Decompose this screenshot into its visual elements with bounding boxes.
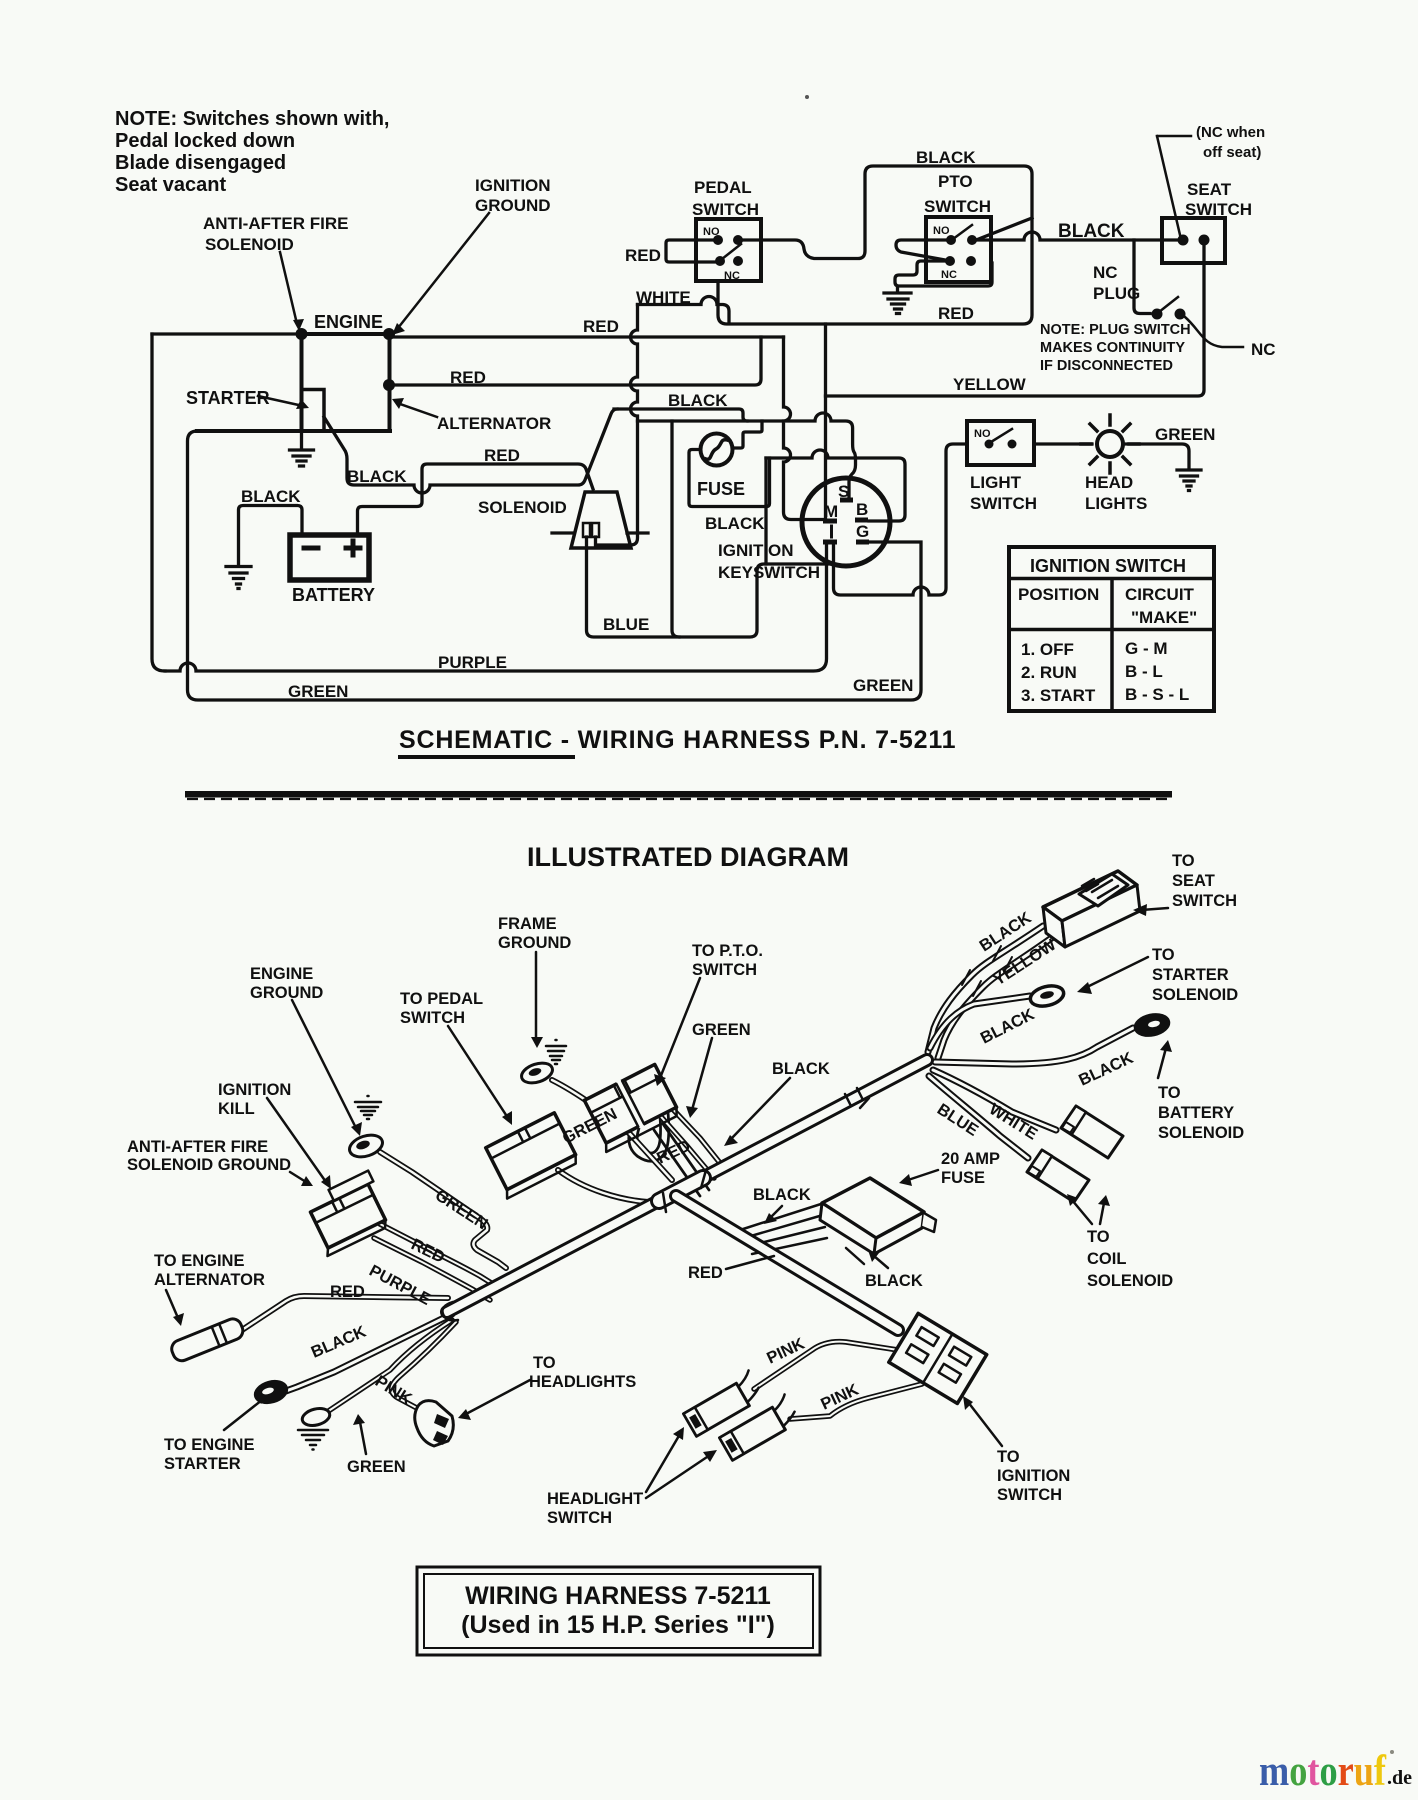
svg-text:SOLENOID: SOLENOID [1087,1272,1173,1290]
svg-text:GROUND: GROUND [475,196,551,215]
svg-text:BLACK: BLACK [916,148,976,167]
svg-text:IGNITION: IGNITION [218,1081,291,1099]
leader to engine alternator [166,1290,178,1318]
svg-text:STARTER: STARTER [1152,966,1229,984]
PTO contact NC left [945,256,955,266]
anti-afterfire connector body [302,1171,394,1256]
wire pto red pair [654,1124,709,1196]
wire black starter diagonal [324,409,617,493]
solenoid trapezoid [571,492,631,548]
leader black fuse upper [770,1206,782,1218]
black starter wire [286,1314,452,1391]
wire black pedal NO loop over PTO to seat black line chain [718,166,1032,324]
wire pto green2 [655,1110,714,1178]
seat wire tape bands [962,946,1012,996]
pedal connector body [482,1113,579,1199]
engine box left edge [300,334,304,431]
wire pto ribbon u-loop [633,1114,665,1157]
fuse right stub wire [733,421,762,448]
PTO switch box [926,217,991,282]
wire left outer vertical [152,334,165,671]
leader to engine starter [224,1400,262,1430]
harness trunk end cap [442,1302,458,1320]
svg-text:GREEN: GREEN [853,676,913,695]
svg-text:SWITCH: SWITCH [924,197,991,216]
headlight switch spade upper [681,1370,764,1436]
svg-text:GROUND: GROUND [250,984,323,1002]
svg-text:YELLOW: YELLOW [953,375,1027,394]
svg-text:GROUND: GROUND [498,934,571,952]
svg-text:IF DISCONNECTED: IF DISCONNECTED [1040,358,1173,374]
light switch contact left [985,440,994,449]
speck dot top [805,95,809,99]
FOOTER [417,1567,820,1655]
svg-text:IGNITION: IGNITION [475,176,551,195]
svg-text:ENGINE: ENGINE [250,965,313,983]
keyswitch G bar [856,540,869,545]
svg-text:NOTE: Switches shown with,: NOTE: Switches shown with, [115,108,389,130]
svg-text:SOLENOID: SOLENOID [205,235,294,254]
seat switch box [1162,218,1225,263]
battery plus symbol [346,541,360,555]
svg-text:KEYSWITCH: KEYSWITCH [718,563,820,582]
svg-text:NOTE: PLUG SWITCH: NOTE: PLUG SWITCH [1040,322,1191,338]
svg-text:"MAKE": "MAKE" [1131,608,1197,627]
table header divider [1009,577,1214,581]
svg-text:MAKES CONTINUITY: MAKES CONTINUITY [1040,340,1185,356]
svg-text:(Used in 15 H.P. Series "I"): (Used in 15 H.P. Series "I") [461,1611,775,1639]
arrowhead ignition ground [392,323,405,335]
leader anti-after-fire arrow [280,252,297,324]
leader to headlights [466,1380,530,1414]
ground headlights bars [1177,470,1201,491]
spade connector white [1061,1106,1123,1158]
wire to battery solenoid ring [935,1028,1133,1064]
engine box top [302,332,390,336]
seat contact right [1199,235,1210,246]
light switch arm [991,429,1012,442]
svg-text:PURPLE: PURPLE [438,653,507,672]
leader to ignition switch [968,1402,1002,1446]
svg-text:IGNITION: IGNITION [997,1467,1070,1485]
harness big collar [659,1178,703,1201]
keyswitch L bar [823,540,837,545]
wire red vertical down to keyswitch M with hops [784,337,824,520]
svg-text:SWITCH: SWITCH [692,200,759,219]
leader ignition kill [267,1098,326,1182]
leader 20 amp fuse [908,1170,938,1180]
svg-text:NO: NO [933,225,950,237]
svg-text:B - L: B - L [1125,662,1163,681]
PTO common bracket wire [896,240,947,260]
svg-text:TO: TO [1158,1084,1181,1102]
svg-text:BLUE: BLUE [603,615,649,634]
wire y458 horizontal to keyswitch B [766,450,905,521]
wire red battery positive to solenoid [358,464,594,534]
svg-text:M: M [824,502,838,521]
headlights lamp circle [1097,431,1123,457]
keyswitch B bar [855,518,868,523]
harness trunk band upper [845,1088,869,1108]
svg-text:S: S [838,482,849,501]
svg-text:NC: NC [1093,263,1118,282]
svg-text:TO P.T.O.: TO P.T.O. [692,942,763,960]
wire black horizontal upper (y409) [614,409,747,421]
leader ignition ground arrow [398,213,489,328]
svg-text:PEDAL: PEDAL [694,178,752,197]
svg-text:WIRING HARNESS 7-5211: WIRING HARNESS 7-5211 [465,1582,771,1610]
svg-text:NC: NC [724,270,740,282]
seat connector tail yellow wire [938,937,1053,1058]
svg-text:CIRCUIT: CIRCUIT [1125,585,1195,604]
solenoid whisker left [552,531,574,534]
PTO contact NO right [967,235,977,245]
wire black PTO to seat switch [972,232,1179,240]
svg-text:TO ENGINE: TO ENGINE [154,1252,244,1270]
wire to starter solenoid ring [930,996,1030,1048]
svg-text:COIL: COIL [1087,1250,1126,1268]
wire blue solenoid left terminal to keyswitch area [587,537,834,637]
svg-text:NO: NO [703,226,720,238]
pedal switch box [696,219,761,281]
arrowhead starter [296,399,309,409]
svg-text:1. OFF: 1. OFF [1021,640,1074,659]
wire pedal connector tail [558,1170,676,1202]
svg-text:(NC when: (NC when [1196,124,1265,141]
alternator red wire [242,1296,448,1330]
table outer box [1009,547,1214,711]
keyswitch S bar [840,498,853,503]
leader engine ground [292,1000,356,1128]
starter box [302,390,325,432]
svg-text:SEAT: SEAT [1187,180,1232,199]
fuse wires fan [740,1204,827,1254]
wire kill red [380,1224,496,1286]
leader green pto [692,1038,712,1110]
wire light switch to headlights [1034,442,1092,445]
svg-text:20 AMP: 20 AMP [941,1150,1000,1168]
leader green lower [360,1422,366,1454]
engine ground green wire [380,1152,506,1268]
wire purple from keyswitch M down and left [165,546,827,671]
leader to coil solenoid a [1072,1200,1092,1224]
svg-text:GREEN: GREEN [432,1186,491,1233]
svg-text:HEADLIGHTS: HEADLIGHTS [529,1373,636,1391]
wire red alternator joining long red [389,337,761,385]
svg-text:LIGHTS: LIGHTS [1085,494,1147,513]
engine box right edge [388,334,392,431]
svg-text:SWITCH: SWITCH [547,1509,612,1527]
svg-text:ENGINE: ENGINE [314,312,383,332]
ground engine bars [290,450,314,466]
pedal red bracket wire [666,240,716,262]
wire black battery negative to ground [239,506,303,566]
seat contact left [1178,235,1189,246]
svg-text:POSITION: POSITION [1018,585,1099,604]
headlight switch spade lower [717,1394,800,1460]
headlights rays [1081,415,1139,473]
svg-text:RED: RED [450,368,486,387]
table second divider [1009,628,1214,632]
svg-text:ALTERNATOR: ALTERNATOR [437,414,551,433]
leader black pto [730,1078,790,1140]
svg-text:NC: NC [941,269,957,281]
leader to battery solenoid [1158,1048,1166,1078]
leader red fuse [726,1256,774,1269]
svg-text:ALTERNATOR: ALTERNATOR [154,1271,265,1289]
svg-text:GREEN: GREEN [692,1021,751,1039]
leader to seat switch [1142,908,1168,910]
PTO switch arm [953,225,972,239]
svg-text:BLACK: BLACK [1058,221,1125,242]
wire vertical from y458 line down to y564 [764,458,767,564]
green ground wire lower [327,1320,452,1412]
fuse block lower stub [846,1248,864,1264]
svg-text:SCHEMATIC - WIRING HARNESS P.: SCHEMATIC - WIRING HARNESS P.N. 7-5211 [399,726,956,754]
svg-text:BATTERY: BATTERY [292,585,375,605]
schematic title underline [398,755,575,759]
light switch contact right [1008,440,1017,449]
pedal contact NO right [733,235,743,245]
leader frame ground [535,952,538,1040]
wire vertical from y421 line down to blue line [672,421,679,637]
svg-text:SWITCH: SWITCH [692,961,757,979]
watermark motoruf.de [1259,1748,1412,1795]
svg-text:BLACK: BLACK [865,1272,923,1290]
leader to starter solenoid [1085,957,1148,988]
ignition switch table [1009,547,1214,711]
svg-text:STARTER: STARTER [164,1455,241,1473]
svg-text:BLUE: BLUE [934,1100,981,1140]
svg-text:G - M: G - M [1125,639,1168,658]
section divider bar [185,791,1172,798]
pink wire headlights [391,1322,456,1414]
svg-text:RED: RED [625,246,661,265]
wire red engine to keyswitch (long top red) [389,335,784,338]
arrowhead anti-after-fire [293,319,304,331]
ground lower hatch [298,1430,328,1450]
svg-text:ANTI-AFTER FIRE: ANTI-AFTER FIRE [127,1138,268,1156]
leader headlight switch a [646,1434,680,1492]
svg-text:SOLENOID: SOLENOID [478,498,567,517]
ground PTO bars [884,293,911,314]
svg-text:TO: TO [533,1354,556,1372]
NC plug contact right [1175,309,1186,320]
svg-text:TO: TO [997,1448,1020,1466]
pedal contact NO left [713,235,723,245]
svg-text:GREEN: GREEN [288,682,348,701]
svg-text:TO: TO [1172,852,1195,870]
keyswitch M-L dash [830,526,833,537]
frame ground hatch [546,1040,566,1064]
svg-text:TO PEDAL: TO PEDAL [400,990,483,1008]
leader to pedal switch [448,1026,508,1118]
pedal contact NC right [733,256,743,266]
svg-text:SWITCH: SWITCH [1185,200,1252,219]
leader to coil solenoid b [1100,1203,1104,1224]
svg-text:BLACK: BLACK [705,514,765,533]
svg-text:SOLENOID: SOLENOID [1158,1124,1244,1142]
seat leader dash [1157,136,1191,235]
PTO contact NC right [966,256,976,266]
svg-text:SWITCH: SWITCH [400,1009,465,1027]
NC plug curve to NC label [1185,317,1243,347]
leader black fuse lower [874,1256,888,1268]
svg-text:IGNITION: IGNITION [718,541,794,560]
svg-text:SWITCH: SWITCH [1172,892,1237,910]
ignition connector body [889,1313,987,1403]
leader to pto switch [660,978,700,1078]
svg-text:RED: RED [583,317,619,336]
svg-text:PURPLE: PURPLE [366,1262,434,1309]
wire pto black [666,1102,724,1168]
pink wire lower to switch [790,1384,922,1419]
wire yellow to seat switch [826,243,1205,396]
svg-text:IGNITION SWITCH: IGNITION SWITCH [1030,556,1186,576]
fuse left loop wire [689,450,770,507]
svg-text:G: G [856,522,869,541]
svg-text:Seat vacant: Seat vacant [115,174,227,196]
svg-text:BLACK: BLACK [241,487,301,506]
svg-text:BLACK: BLACK [753,1186,811,1204]
svg-text:RED: RED [688,1264,723,1282]
svg-text:BATTERY: BATTERY [1158,1104,1234,1122]
PTO contact NO left [946,235,956,245]
pedal contact NC left [715,256,725,266]
svg-text:ILLUSTRATED DIAGRAM: ILLUSTRATED DIAGRAM [527,842,849,872]
ILLUSTRATED [166,871,1172,1498]
svg-text:B: B [856,500,868,519]
svg-text:LIGHT: LIGHT [970,473,1022,492]
svg-text:PLUG: PLUG [1093,284,1140,303]
NC plug contact left [1152,309,1163,320]
svg-text:NO: NO [974,428,991,440]
seat connector body [1043,871,1140,947]
fuse block [820,1178,936,1254]
leader alternator arrow [400,404,437,417]
svg-text:3. START: 3. START [1021,686,1096,705]
wire engine top feed from left loop [152,332,302,335]
node alternator [383,379,395,391]
footer box outer [417,1567,820,1655]
node engine left [296,328,308,340]
svg-text:BLACK: BLACK [978,1005,1038,1047]
svg-text:SOLENOID: SOLENOID [1152,986,1238,1004]
harness ignition trunk [676,1196,898,1330]
headlight connector [415,1401,454,1446]
fuse squiggle [706,440,727,460]
keyswitch M bar [823,519,837,524]
svg-text:TO: TO [1087,1228,1110,1246]
table column divider [1110,579,1114,712]
svg-text:STARTER: STARTER [186,388,270,408]
ring terminal engine starter [253,1378,289,1406]
ring terminal battery solenoid [1133,1012,1170,1039]
svg-text:HEAD: HEAD [1085,473,1133,492]
svg-text:SWITCH: SWITCH [970,494,1037,513]
wire yellow riser / keyswitch M vertical [824,324,827,518]
arrowhead alternator [392,398,404,409]
svg-text:FUSE: FUSE [697,479,745,499]
svg-text:RED: RED [330,1283,365,1301]
svg-text:SOLENOID GROUND: SOLENOID GROUND [127,1156,291,1174]
svg-text:KILL: KILL [218,1100,255,1118]
svg-text:BLACK: BLACK [668,391,728,410]
wire white from pedal area [638,297,730,323]
svg-text:NC: NC [1251,340,1276,359]
svg-text:SWITCH: SWITCH [997,1486,1062,1504]
svg-text:PTO: PTO [938,172,973,191]
svg-text:ANTI-AFTER FIRE: ANTI-AFTER FIRE [203,214,348,233]
NC plug arm [1159,297,1178,312]
engine box bottom / wire to second vertical [197,429,390,433]
wire blue to coil spade [929,1076,1028,1158]
ground engine stem [300,431,303,449]
wire white to coil spade [933,1070,1056,1130]
wire seat black drop to NC plug [1134,240,1150,314]
battery minus symbol [304,546,318,551]
svg-text:2. RUN: 2. RUN [1021,663,1077,682]
frame ground ring [519,1059,555,1086]
solenoid terminal left [583,523,590,537]
spade connector blue [1027,1150,1089,1202]
battery box [290,535,369,580]
PTO NC to ground wire [895,261,992,292]
wire green from keyswitch G down and left to second vertical [188,431,922,700]
svg-text:GREEN: GREEN [347,1458,406,1476]
svg-text:WHITE: WHITE [636,288,691,307]
svg-text:TO ENGINE: TO ENGINE [164,1436,254,1454]
svg-text:RED: RED [938,304,974,323]
svg-text:BLACK: BLACK [347,467,407,486]
ground battery bars [226,567,251,589]
harness main trunk [447,1060,927,1312]
svg-text:FUSE: FUSE [941,1169,985,1187]
svg-text:HEADLIGHT: HEADLIGHT [547,1490,643,1508]
wire headlights to ground [1123,444,1189,469]
footer box inner [424,1574,813,1648]
svg-text:Pedal locked down: Pedal locked down [115,130,295,152]
wire keyswitch L to light switch (y595) [834,444,968,595]
solenoid right terminal riser [594,537,597,545]
ground lower ring [300,1406,331,1428]
light switch box [967,421,1034,465]
node engine right [383,328,395,340]
wire white-solenoid vertical with hops [597,305,638,546]
svg-text:FRAME: FRAME [498,915,557,933]
wire PTO diagonal to NO right contact [976,218,1032,240]
engine ground hatch [355,1096,381,1119]
engine ground ring [347,1131,386,1161]
pink wire upper to switch [754,1342,898,1389]
pto connector body [581,1064,680,1152]
svg-text:TO: TO [1152,946,1175,964]
alternator bullet connector [169,1316,245,1363]
svg-text:BLACK: BLACK [772,1060,830,1078]
leader anti-afterfire ground [290,1172,306,1182]
wire kill purple [374,1238,490,1300]
svg-text:RED: RED [484,446,520,465]
solenoid whisker right [627,531,648,534]
svg-text:Blade disengaged: Blade disengaged [115,152,286,174]
svg-text:off seat): off seat) [1203,144,1261,161]
wire black horizontal y421 to keyswitch S [638,413,856,496]
svg-text:PINK: PINK [372,1372,415,1408]
svg-text:motoruf: motoruf [1259,1748,1387,1795]
leader headlight switch b [646,1455,710,1498]
leader starter arrow [258,396,303,406]
svg-text:GREEN: GREEN [1155,425,1215,444]
